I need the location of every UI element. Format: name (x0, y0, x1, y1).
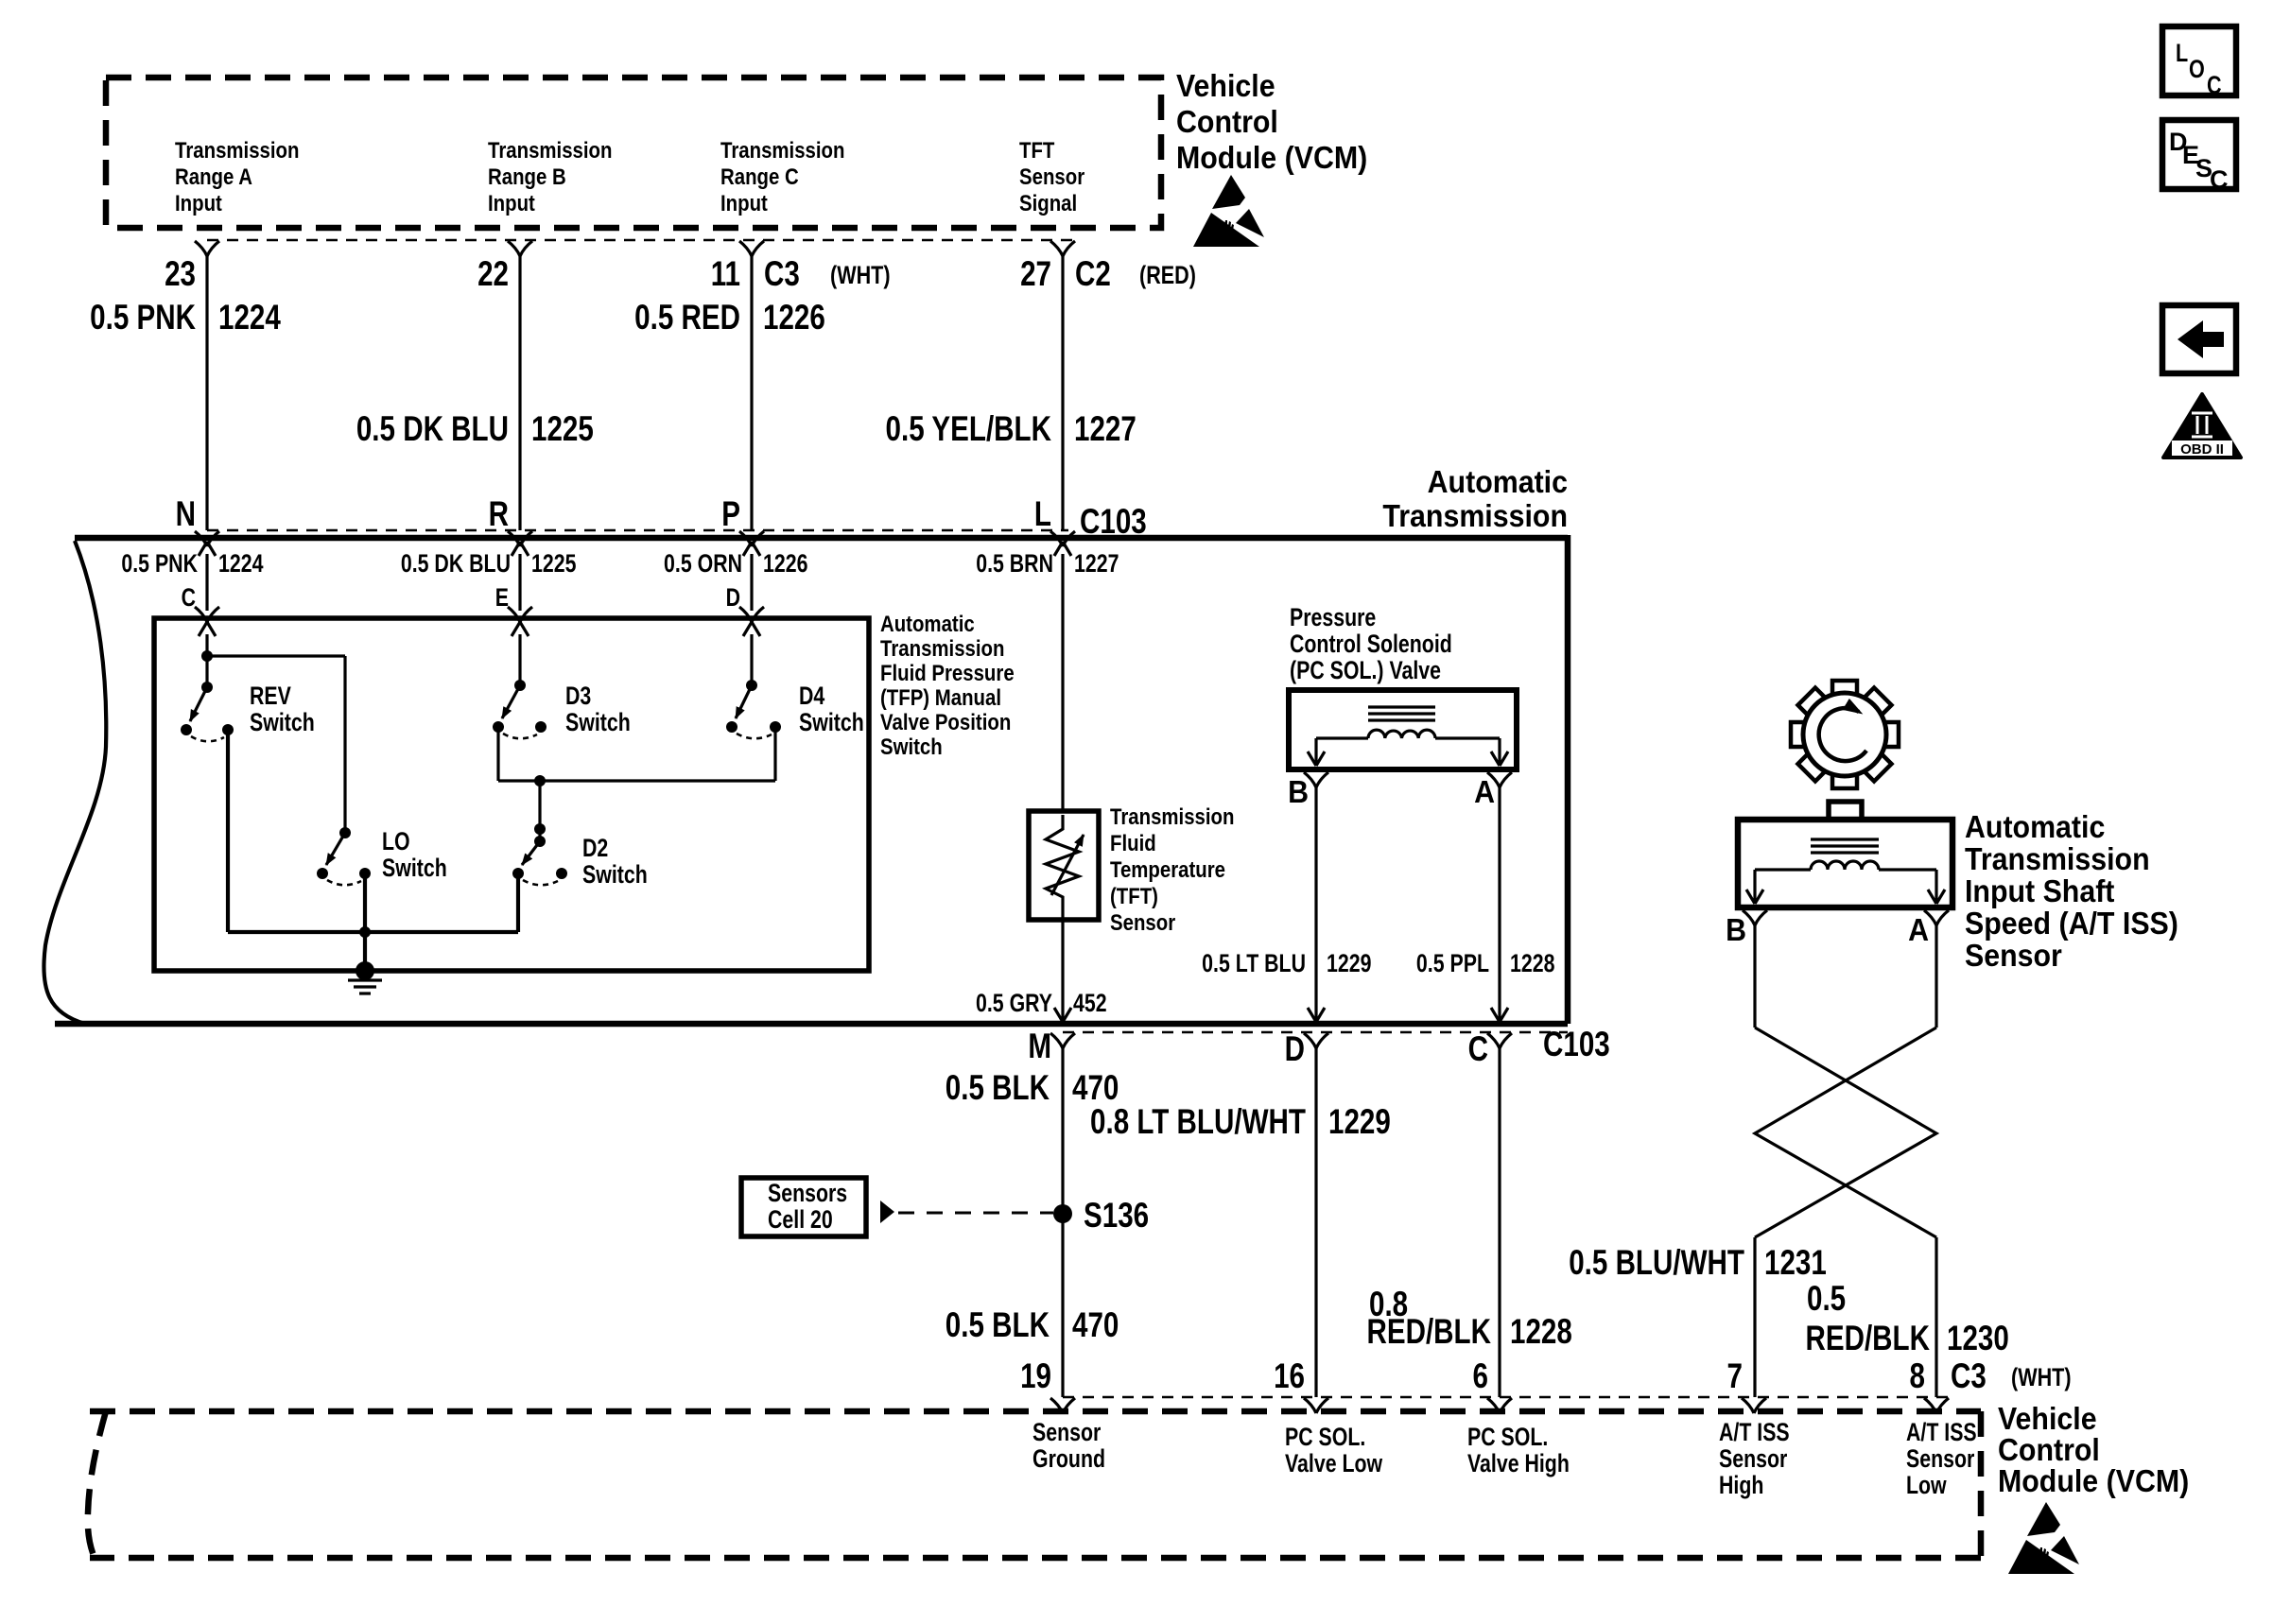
svg-text:Module (VCM): Module (VCM) (1998, 1463, 2189, 1498)
svg-text:16: 16 (1274, 1357, 1305, 1396)
svg-text:Switch: Switch (880, 734, 943, 759)
svg-text:0.8 LT BLU/WHT: 0.8 LT BLU/WHT (1090, 1103, 1306, 1142)
svg-text:0.5 BLU/WHT: 0.5 BLU/WHT (1569, 1244, 1744, 1283)
svg-text:PC SOL.: PC SOL. (1285, 1424, 1365, 1452)
svg-text:C: C (182, 584, 196, 613)
svg-text:B: B (1726, 912, 1746, 947)
svg-text:22: 22 (477, 255, 509, 294)
svg-text:Range B: Range B (488, 164, 566, 189)
svg-text:1224: 1224 (218, 550, 264, 579)
svg-text:19: 19 (1020, 1357, 1051, 1396)
svg-text:0.5 BLK: 0.5 BLK (946, 1069, 1050, 1108)
svg-text:Switch: Switch (565, 709, 631, 737)
svg-text:0.5: 0.5 (1807, 1280, 1846, 1319)
svg-text:Input: Input (720, 190, 768, 216)
svg-text:N: N (176, 495, 196, 534)
svg-text:L: L (2176, 40, 2188, 68)
svg-text:A: A (1908, 912, 1929, 947)
svg-text:0.5 BLK: 0.5 BLK (946, 1306, 1050, 1345)
svg-text:1229: 1229 (1328, 1103, 1391, 1142)
svg-text:Automatic: Automatic (1428, 464, 1568, 499)
svg-text:Switch: Switch (799, 709, 864, 737)
svg-text:1231: 1231 (1764, 1244, 1827, 1283)
svg-text:1225: 1225 (531, 410, 594, 449)
svg-text:0.5 DK BLU: 0.5 DK BLU (356, 410, 509, 449)
svg-text:Speed (A/T ISS): Speed (A/T ISS) (1965, 906, 2178, 941)
svg-text:C: C (1468, 1030, 1488, 1069)
svg-text:Control: Control (1998, 1432, 2100, 1467)
svg-text:Transmission: Transmission (1965, 841, 2150, 876)
svg-text:0.5 BRN: 0.5 BRN (976, 550, 1053, 579)
svg-text:PC SOL.: PC SOL. (1467, 1424, 1548, 1452)
svg-text:RED/BLK: RED/BLK (1366, 1313, 1491, 1352)
svg-text:452: 452 (1073, 990, 1107, 1018)
svg-text:(WHT): (WHT) (2011, 1364, 2072, 1392)
svg-text:Input: Input (488, 190, 535, 216)
svg-text:Module (VCM): Module (VCM) (1176, 140, 1367, 175)
svg-text:Input Shaft: Input Shaft (1965, 873, 2115, 908)
svg-text:C2: C2 (1075, 255, 1111, 294)
svg-text:C103: C103 (1543, 1026, 1610, 1064)
svg-text:C3: C3 (1951, 1357, 1987, 1396)
svg-text:RED/BLK: RED/BLK (1805, 1320, 1930, 1358)
svg-text:1230: 1230 (1947, 1320, 2009, 1358)
svg-text:0.5 GRY: 0.5 GRY (976, 990, 1052, 1018)
svg-text:1226: 1226 (763, 550, 807, 579)
svg-text:Range A: Range A (175, 164, 252, 189)
svg-text:OBD II: OBD II (2180, 441, 2224, 458)
svg-text:Fluid: Fluid (1110, 830, 1156, 855)
svg-text:Switch: Switch (250, 709, 315, 737)
svg-text:1226: 1226 (763, 299, 825, 337)
svg-text:1227: 1227 (1074, 410, 1136, 449)
svg-text:A/T ISS: A/T ISS (1719, 1419, 1790, 1447)
svg-text:Transmission: Transmission (175, 137, 299, 163)
svg-text:0.5 RED: 0.5 RED (634, 299, 740, 337)
svg-text:23: 23 (165, 255, 196, 294)
svg-text:Sensor: Sensor (1110, 909, 1175, 935)
svg-text:Vehicle: Vehicle (1998, 1401, 2097, 1436)
svg-text:Cell 20: Cell 20 (768, 1206, 833, 1235)
svg-text:D4: D4 (799, 682, 825, 711)
svg-text:Transmission: Transmission (1110, 803, 1234, 829)
svg-text:470: 470 (1072, 1306, 1119, 1345)
svg-text:High: High (1719, 1472, 1763, 1500)
svg-text:Valve High: Valve High (1467, 1450, 1570, 1478)
svg-text:Automatic: Automatic (880, 611, 975, 636)
svg-text:Transmission: Transmission (488, 137, 612, 163)
svg-text:0.5 ORN: 0.5 ORN (664, 550, 742, 579)
svg-text:Sensor: Sensor (1032, 1419, 1102, 1447)
svg-text:Low: Low (1906, 1472, 1947, 1500)
svg-text:6: 6 (1473, 1357, 1488, 1396)
svg-text:0.5 YEL/BLK: 0.5 YEL/BLK (886, 410, 1051, 449)
svg-text:Switch: Switch (382, 855, 447, 883)
svg-text:1227: 1227 (1074, 550, 1119, 579)
svg-text:Pressure: Pressure (1290, 604, 1376, 632)
svg-text:470: 470 (1072, 1069, 1119, 1108)
svg-text:1224: 1224 (218, 299, 281, 337)
svg-text:0.5 PNK: 0.5 PNK (90, 299, 196, 337)
svg-text:Sensors: Sensors (768, 1180, 847, 1208)
svg-text:Ground: Ground (1032, 1445, 1105, 1474)
svg-text:(PC SOL.) Valve: (PC SOL.) Valve (1290, 657, 1441, 685)
svg-text:Range C: Range C (720, 164, 799, 189)
svg-text:B: B (1288, 774, 1309, 809)
svg-text:Valve Position: Valve Position (880, 709, 1011, 734)
svg-text:Transmission: Transmission (880, 635, 1004, 661)
svg-text:D: D (1285, 1030, 1305, 1069)
svg-text:0.5 DK BLU: 0.5 DK BLU (401, 550, 511, 579)
svg-text:Temperature: Temperature (1110, 856, 1225, 882)
svg-text:Control: Control (1176, 104, 1278, 139)
svg-text:27: 27 (1020, 255, 1051, 294)
svg-text:LO: LO (382, 828, 410, 856)
svg-text:TFT: TFT (1019, 137, 1055, 163)
svg-text:R: R (489, 495, 509, 534)
svg-text:8: 8 (1910, 1357, 1925, 1396)
svg-text:O: O (2189, 56, 2205, 84)
svg-text:1229: 1229 (1327, 950, 1371, 978)
svg-text:S136: S136 (1084, 1197, 1149, 1235)
svg-text:Control Solenoid: Control Solenoid (1290, 631, 1452, 659)
svg-text:(TFP) Manual: (TFP) Manual (880, 684, 1001, 710)
svg-text:Sensor: Sensor (1906, 1445, 1975, 1474)
svg-text:M: M (1028, 1028, 1051, 1066)
svg-text:Signal: Signal (1019, 190, 1077, 216)
svg-text:Transmission: Transmission (1382, 498, 1568, 533)
svg-text:Switch: Switch (582, 861, 648, 890)
svg-text:C: C (2210, 165, 2229, 194)
svg-text:1228: 1228 (1510, 950, 1554, 978)
svg-text:REV: REV (250, 682, 292, 711)
svg-text:0.5 PPL: 0.5 PPL (1416, 950, 1489, 978)
svg-text:Automatic: Automatic (1965, 809, 2105, 844)
svg-text:P: P (721, 495, 740, 534)
svg-text:Valve Low: Valve Low (1285, 1450, 1382, 1478)
svg-text:Transmission: Transmission (720, 137, 844, 163)
svg-text:Sensor: Sensor (1019, 164, 1084, 189)
svg-text:L: L (1034, 495, 1051, 534)
svg-text:11: 11 (711, 255, 740, 294)
svg-text:C: C (2207, 72, 2222, 100)
svg-text:A: A (1474, 774, 1495, 809)
svg-text:Sensor: Sensor (1965, 938, 2062, 973)
svg-text:C3: C3 (764, 255, 800, 294)
svg-text:0.5 PNK: 0.5 PNK (121, 550, 198, 579)
svg-text:Sensor: Sensor (1719, 1445, 1788, 1474)
svg-text:A/T ISS: A/T ISS (1906, 1419, 1977, 1447)
svg-text:E: E (495, 584, 509, 613)
svg-text:(TFT): (TFT) (1110, 883, 1158, 908)
svg-text:Vehicle: Vehicle (1176, 68, 1275, 103)
svg-text:0.5 LT BLU: 0.5 LT BLU (1202, 950, 1306, 978)
svg-text:D: D (726, 584, 740, 613)
svg-text:1225: 1225 (531, 550, 576, 579)
svg-text:(RED): (RED) (1139, 262, 1196, 290)
svg-text:Fluid Pressure: Fluid Pressure (880, 660, 1015, 685)
svg-text:Input: Input (175, 190, 222, 216)
svg-text:(WHT): (WHT) (830, 262, 891, 290)
svg-text:D2: D2 (582, 835, 608, 863)
svg-text:1228: 1228 (1510, 1313, 1572, 1352)
svg-text:7: 7 (1727, 1357, 1743, 1396)
svg-text:D3: D3 (565, 682, 591, 711)
